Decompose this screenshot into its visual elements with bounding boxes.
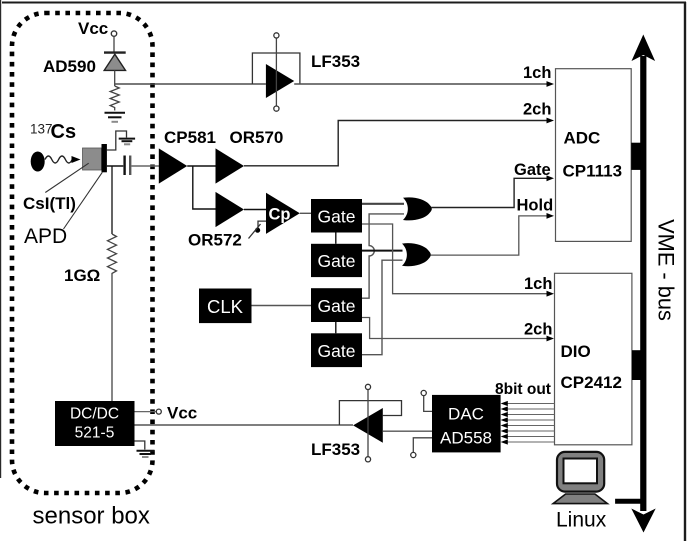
DAC supply terminal (top) — [421, 390, 426, 395]
svg-text:137: 137 — [30, 122, 53, 137]
svg-text:CsI(Tl): CsI(Tl) — [23, 194, 76, 213]
sensor box dashed outline — [12, 13, 153, 493]
op-amp LF353 (bottom) supply — [367, 390, 369, 457]
wire junction down to OR572 — [193, 166, 216, 209]
wire OR2 to ADC Hold — [431, 216, 550, 255]
svg-text:DIO: DIO — [561, 342, 591, 361]
wire AD590 branch to LF353 input — [115, 83, 266, 85]
computer monitor (Linux) — [557, 452, 604, 492]
ground (APD) — [119, 139, 135, 145]
wire 1G resistor to DC/DC — [111, 281, 113, 401]
svg-text:2ch: 2ch — [523, 101, 551, 119]
OR gate U2 (bottom) — [402, 243, 431, 266]
pointer line APD — [64, 172, 103, 229]
svg-text:CP2412: CP2412 — [561, 373, 622, 392]
svg-text:Gate: Gate — [514, 161, 551, 179]
svg-text:1ch: 1ch — [524, 275, 552, 293]
ground (under resistor) — [105, 113, 126, 122]
op-amp LF353 (top) supply — [275, 38, 277, 106]
ADC CP1113 box — [556, 69, 632, 242]
photon wavy arrow — [45, 156, 72, 163]
svg-text:ADC: ADC — [564, 129, 601, 148]
ground (DC/DC) — [135, 441, 145, 450]
svg-text:521-5: 521-5 — [75, 425, 115, 442]
DIO to VME bus tab — [632, 350, 645, 380]
resistor 1GΩ — [108, 234, 117, 281]
svg-text:Gate: Gate — [318, 296, 356, 316]
wire Gate1 to DIO 1ch — [362, 224, 550, 294]
wire Gate2 to OR2 input1 — [362, 250, 403, 252]
svg-text:Cs: Cs — [51, 121, 77, 143]
wire APD node down to 1G resistor — [111, 166, 113, 234]
scintillator CsI(Tl) box — [83, 148, 102, 170]
amplifier OR572 — [216, 192, 245, 227]
frame top border — [2, 2, 686, 4]
wire computer to VME bus — [615, 499, 643, 504]
svg-text:DAC: DAC — [448, 405, 484, 424]
svg-text:sensor box: sensor box — [33, 503, 150, 530]
wire Gate1-Gate2 link — [335, 233, 337, 244]
svg-text:LF353: LF353 — [311, 52, 360, 71]
gate box Gate4 — [311, 333, 362, 367]
op-amp LF353 (bottom) feedback loop — [339, 401, 401, 425]
frame right border — [684, 2, 686, 541]
wire OR570 to ADC 2ch — [244, 121, 550, 166]
wire OR572 to Cp — [244, 209, 266, 211]
VME bus arrow top — [632, 35, 656, 62]
svg-text:Vcc: Vcc — [167, 404, 197, 423]
APD bar — [102, 144, 107, 172]
wire CLK to Gate3 — [252, 305, 312, 307]
wire LF353 to ADC 1ch — [294, 83, 549, 85]
svg-text:VME - bus: VME - bus — [654, 219, 679, 321]
svg-text:Cp: Cp — [269, 206, 291, 224]
wire CP581 to OR570 — [187, 165, 215, 167]
svg-text:Hold: Hold — [517, 197, 554, 215]
svg-text:1GΩ: 1GΩ — [64, 266, 100, 285]
svg-text:CP1113: CP1113 — [563, 162, 623, 181]
pointer line CsI(Tl) — [45, 163, 88, 192]
wire Gate3 to OR1 input2 (with hop) — [362, 214, 404, 298]
node Vcc (DC/DC out) — [135, 411, 157, 413]
wire Gate3 to DIO 2ch — [362, 318, 550, 339]
diode AD590 triangle — [104, 54, 125, 70]
source ellipse (137Cs) — [31, 152, 45, 172]
svg-text:Gate: Gate — [318, 341, 356, 361]
amplifier OR570 — [216, 148, 245, 183]
svg-text:APD: APD — [24, 225, 67, 248]
diode AD590 cathode bar — [104, 51, 126, 53]
resistor (AD590 bias) — [110, 86, 119, 111]
op-amp LF353 (bottom) — [353, 408, 383, 443]
wire Gate4 to OR2 input2 — [362, 260, 403, 355]
svg-text:2ch: 2ch — [524, 321, 552, 339]
wire Gate1 to OR1 input1 — [362, 203, 404, 205]
gate box Gate2 — [311, 244, 362, 277]
svg-text:Gate: Gate — [318, 207, 356, 227]
DAC AD558 box — [432, 395, 501, 453]
op-amp LF353 (top) feedback loop — [252, 53, 300, 84]
VME bus line — [640, 56, 646, 511]
svg-text:OR570: OR570 — [230, 128, 284, 147]
DC/DC 521-5 box — [55, 401, 135, 446]
CLK box — [199, 289, 252, 324]
DIO CP2412 box — [555, 273, 632, 445]
wire diode to resistor/branch — [114, 70, 116, 86]
svg-text:CLK: CLK — [207, 296, 244, 317]
VME bus arrow bottom — [631, 509, 655, 533]
capacitor (AC coupling) — [123, 156, 125, 176]
svg-text:1ch: 1ch — [523, 64, 551, 82]
gate box Gate3 — [311, 288, 362, 322]
comparator Cp — [266, 193, 300, 234]
svg-text:Vcc: Vcc — [78, 19, 108, 38]
svg-text:CP581: CP581 — [164, 128, 216, 147]
threshold adjust (Cp) — [258, 221, 266, 228]
svg-text:Linux: Linux — [556, 509, 607, 532]
wire APD output to capacitor — [107, 165, 123, 167]
svg-text:Gate: Gate — [318, 251, 356, 271]
8bit bus wires DAC-DIO — [507, 404, 555, 443]
wire capacitor to CP581 — [131, 165, 159, 167]
wire DC/DC control from LF353 — [135, 424, 354, 426]
gate box Gate1 — [311, 199, 362, 233]
computer base — [553, 494, 607, 504]
svg-text:AD590: AD590 — [43, 57, 96, 76]
wire Vcc to diode — [113, 36, 115, 51]
OR gate U1 (top) — [403, 197, 432, 220]
amplifier CP581 — [159, 148, 187, 183]
svg-text:8bit out: 8bit out — [495, 381, 551, 398]
wire DAC to LF353 input — [383, 430, 432, 432]
wire APD to ground — [107, 131, 127, 150]
svg-text:AD558: AD558 — [440, 429, 492, 448]
svg-text:LF353: LF353 — [311, 440, 360, 459]
ADC to VME bus tab — [631, 143, 644, 170]
wire Gate3-Gate4 link — [335, 322, 337, 333]
svg-text:OR572: OR572 — [188, 231, 242, 250]
op-amp LF353 (top) — [266, 64, 294, 98]
frame left border — [0, 0, 2, 478]
svg-text:DC/DC: DC/DC — [70, 406, 119, 423]
wire OR1 to ADC Gate — [431, 178, 549, 207]
DAC supply terminal (bottom) — [413, 438, 432, 453]
wire Cp to Gate1 — [300, 212, 311, 214]
